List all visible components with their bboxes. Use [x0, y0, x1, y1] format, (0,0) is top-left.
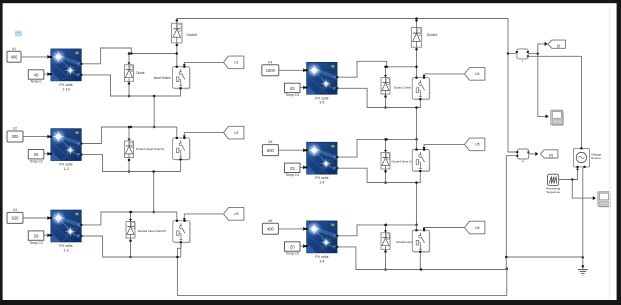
svg-text:1-2: 1-2 — [63, 167, 68, 171]
wire gate U1 to S1 — [183, 62, 224, 66]
from tag U2 — [224, 126, 244, 139]
wire PV2 out- to bottom rail — [82, 155, 180, 172]
svg-text:1-3: 1-3 — [63, 248, 68, 252]
wire col2 string negative to node N2 — [420, 267, 508, 270]
svg-text:Diode5 Ideal Switch5: Diode5 Ideal Switch5 — [138, 229, 167, 233]
svg-text:Diode3: Diode3 — [427, 33, 438, 37]
constant Temp C3 value 20 — [28, 231, 44, 245]
series connector module 5 to next — [415, 181, 418, 226]
wire negative node to voltage sensor — [506, 156, 516, 270]
wire Temp C3 to PV in2 — [44, 233, 51, 237]
goto tag [I] — [548, 40, 566, 48]
ideal switch S4 — [412, 67, 430, 100]
wire Temp C to PV in2 — [44, 72, 51, 76]
svg-text:1-5: 1-5 — [319, 101, 324, 105]
constant Ir1 value 400 — [7, 47, 21, 62]
svg-text:U4: U4 — [475, 72, 479, 76]
wire PV3 out- to bottom rail — [82, 236, 181, 257]
repeating sequence source RS1 — [546, 174, 560, 194]
wire S2 bottom to rail — [180, 161, 182, 172]
wire PV4 out+ to top rail node — [338, 61, 416, 77]
svg-text:PV cells: PV cells — [315, 96, 328, 100]
bottom rail node of module 5 — [367, 182, 421, 184]
constant Ir4 value 1000 — [262, 60, 279, 75]
scope Scope1 — [551, 110, 564, 126]
wire S1 bottom to rail — [180, 89, 182, 96]
svg-text:PV cells: PV cells — [59, 83, 72, 87]
svg-text:40: 40 — [34, 73, 39, 78]
svg-text:620: 620 — [12, 216, 20, 221]
svg-text:PV cells: PV cells — [315, 255, 328, 259]
svg-text:Ir4: Ir4 — [268, 60, 272, 64]
svg-text:Ir2: Ir2 — [13, 127, 17, 131]
svg-text:[I]: [I] — [557, 44, 560, 48]
svg-text:Ir3: Ir3 — [13, 208, 17, 212]
svg-text:Ir5: Ir5 — [268, 140, 272, 144]
constant Ir5 value 500 — [262, 140, 278, 155]
bottom rail node of module 4 — [367, 107, 421, 109]
svg-text:Ir1: Ir1 — [12, 47, 16, 51]
wire PV1 out+ to top rail node — [82, 48, 177, 64]
wire S5 bottom to rail — [419, 173, 421, 183]
svg-text:Diode: Diode — [136, 71, 145, 75]
wire PV5 out- to bottom rail — [338, 168, 421, 182]
svg-text:1000: 1000 — [266, 68, 276, 73]
svg-text:Temp C: Temp C — [30, 80, 42, 84]
wire PV4 out- to bottom rail — [338, 88, 421, 107]
bypass diode D3 — [126, 211, 135, 259]
wire gate U5 to S5 — [423, 144, 465, 149]
from tag U4 — [465, 68, 485, 81]
svg-text:Temp C4: Temp C4 — [286, 173, 299, 177]
series connector module 2 to next — [152, 170, 155, 213]
wire junction B down to scope1 — [538, 54, 549, 119]
PV array block PV1 (PV cells 1-19) — [50, 49, 83, 91]
ideal switch S5 — [412, 139, 430, 172]
series connector module 1 to next — [153, 95, 156, 129]
svg-text:Diode6: Diode6 — [187, 33, 198, 37]
svg-text:25: 25 — [34, 152, 39, 157]
from tag U6 — [465, 221, 485, 234]
wire Ir6 to PV in1 — [278, 227, 306, 231]
svg-text:Diode1 Ideal Switch1: Diode1 Ideal Switch1 — [136, 147, 165, 151]
svg-text:300: 300 — [12, 134, 20, 139]
svg-text:Source: Source — [591, 156, 601, 160]
bypass diode D6 — [381, 224, 390, 271]
wire junction B to goto [I] — [538, 42, 548, 54]
wire current sensor to voltage source + — [529, 56, 582, 147]
wire S6 bottom to rail — [419, 253, 421, 269]
screenshot border frame — [0, 0, 621, 3]
controlled voltage source B1 — [574, 147, 602, 168]
wire gate U3 to S3 — [183, 214, 224, 221]
svg-text:PV cells: PV cells — [315, 176, 328, 180]
svg-text:Temp C3: Temp C3 — [286, 93, 299, 97]
bottom rail node of module 6 — [356, 269, 421, 271]
svg-text:U2: U2 — [234, 131, 238, 135]
constant Temp C5 value 20 — [285, 242, 301, 256]
svg-text:1-4: 1-4 — [319, 259, 324, 263]
wire Temp C4 to PV in2 — [300, 165, 306, 169]
wire sensor I1 signal to junction B — [529, 52, 539, 55]
PV array block PV4 (PV cells 1-5) — [305, 62, 338, 104]
bottom rail node of module 3 — [103, 256, 181, 258]
constant Ir2 value 300 — [7, 127, 23, 142]
from tag U3 — [224, 208, 244, 221]
ideal switch S1 — [173, 54, 191, 90]
svg-text:400: 400 — [267, 227, 275, 232]
svg-text:1-3: 1-3 — [319, 181, 324, 185]
annotation icon top-left — [16, 31, 22, 36]
wire negative node to ground branch — [505, 256, 584, 259]
wire PV6 out- to bottom rail — [338, 247, 421, 270]
svg-text:U1: U1 — [234, 61, 238, 65]
wire node A to current sensor — [508, 53, 516, 55]
wire Ir4 to PV in1 — [279, 68, 306, 72]
ground symbol — [578, 270, 588, 276]
wire Temp C5 to PV in2 — [300, 244, 306, 248]
wire RS1 to voltage source control — [559, 168, 579, 181]
wire Temp C3 to PV in2 — [300, 86, 306, 90]
PV array block PV5 (PV cells 1-3) — [305, 142, 338, 184]
wire RS1 branch to scope2 — [572, 180, 596, 201]
PV array block PV6 (PV cells 1-4) — [305, 221, 338, 263]
faint window edge — [609, 5, 611, 299]
ideal switch S6 — [412, 225, 430, 253]
svg-text:PV cells: PV cells — [59, 163, 72, 167]
constant Temp C2 value 25 — [28, 150, 44, 164]
wire S4 bottom to rail — [419, 101, 421, 108]
wire col1 string negative return — [176, 242, 507, 295]
current measurement sensor I1 — [516, 49, 529, 63]
wire Ir3 to PV in1 — [23, 216, 50, 220]
wire Ir5 to PV in1 — [278, 148, 306, 152]
svg-text:Ideal Switch: Ideal Switch — [154, 76, 171, 80]
wire Temp C2 to PV in2 — [44, 152, 51, 156]
wire gate U2 to S2 — [183, 133, 224, 138]
wire Ir2 to PV in1 — [23, 135, 50, 139]
ideal switch S2 — [173, 127, 191, 161]
svg-text:Ir6: Ir6 — [268, 219, 272, 223]
wire gate U4 to S4 — [423, 74, 465, 78]
bypass diode D5 — [381, 138, 390, 184]
svg-text:U5: U5 — [475, 143, 479, 147]
svg-text:20: 20 — [34, 234, 39, 239]
bypass diode D2 — [125, 126, 134, 173]
svg-text:1-19: 1-19 — [62, 87, 69, 91]
constant Temp C value 40 — [28, 70, 44, 84]
svg-text:500: 500 — [267, 148, 275, 153]
constant Ir3 value 620 — [7, 208, 23, 223]
ideal switch S3 — [173, 212, 191, 243]
svg-text:Sequence: Sequence — [546, 190, 560, 194]
constant Temp C4 value 23 — [285, 163, 301, 177]
series connector module 4 to next — [415, 106, 418, 140]
goto tag [V] — [540, 150, 558, 158]
wire PV2 out+ to top rail node — [82, 126, 177, 144]
from tag U5 — [465, 138, 485, 151]
wire Ir1 to PV in1 — [21, 55, 50, 59]
bottom rail node of module 1 — [111, 95, 181, 97]
svg-text:Temp C3: Temp C3 — [29, 241, 42, 245]
svg-text:Temp C2: Temp C2 — [29, 159, 42, 163]
blocking diode Diode6 — [172, 19, 198, 55]
svg-text:400: 400 — [11, 55, 19, 60]
blocking diode Diode3 — [411, 19, 437, 69]
wire PV1 out- to bottom rail — [82, 75, 180, 96]
wire PV6 out+ to top rail node — [338, 224, 416, 236]
PV array block PV3 (PV cells 1-3) — [50, 210, 83, 252]
wire PV3 out+ to top rail node — [82, 211, 177, 225]
wire S3 bottom to rail — [180, 243, 182, 257]
bypass diode D4 — [381, 66, 390, 109]
svg-text:[V]: [V] — [549, 154, 553, 158]
scope Scope2 — [598, 192, 611, 208]
svg-text:43: 43 — [290, 86, 295, 91]
constant Temp C3 value 43 — [285, 83, 301, 97]
svg-text:Temp C5: Temp C5 — [286, 252, 299, 256]
svg-text:v: v — [522, 160, 524, 164]
from tag U1 — [224, 56, 244, 69]
wire gate U6 to S6 — [423, 228, 465, 231]
bypass diode D1 — [125, 52, 134, 97]
PV array block PV2 (PV cells 1-2) — [50, 129, 83, 171]
constant Ir6 value 400 — [262, 219, 278, 234]
svg-text:U3: U3 — [234, 212, 238, 216]
wire PV5 out+ to top rail node — [338, 138, 416, 157]
bottom rail node of module 2 — [103, 171, 181, 173]
wire voltage source - to ground — [582, 168, 585, 270]
svg-text:PV cells: PV cells — [59, 244, 72, 248]
top positive rail net — [177, 17, 517, 152]
wire voltage sensor output to goto [V] — [529, 152, 538, 156]
svg-text:U6: U6 — [475, 226, 479, 230]
voltage sensor V1 — [516, 149, 529, 164]
svg-text:23: 23 — [290, 166, 295, 171]
svg-text:20: 20 — [290, 245, 295, 250]
